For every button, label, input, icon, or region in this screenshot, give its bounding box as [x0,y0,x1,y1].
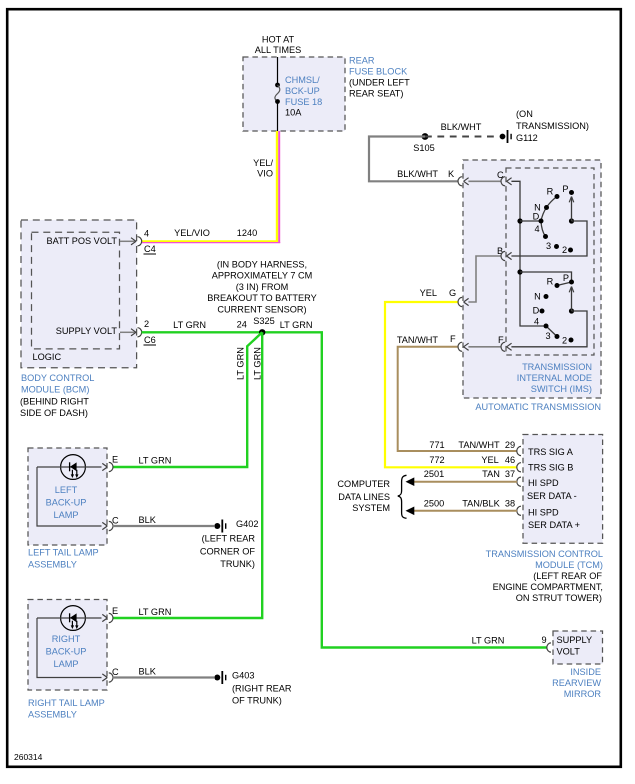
upper switch contacts [539,190,575,253]
svg-text:G403: G403 [232,671,254,681]
svg-text:HOT AT: HOT AT [262,35,295,45]
body control module (BCM) box [21,220,137,368]
svg-text:29: 29 [505,440,515,450]
svg-text:APPROXIMATELY 7 CM: APPROXIMATELY 7 CM [212,271,313,281]
svg-text:INSIDE: INSIDE [570,667,601,677]
svg-text:D: D [533,306,540,316]
svg-text:MODULE (BCM): MODULE (BCM) [21,385,89,395]
svg-text:DATA LINES: DATA LINES [338,492,390,502]
TCM pin 29 connector [517,446,521,455]
svg-text:BCK-UP: BCK-UP [285,86,320,96]
svg-text:LT GRN: LT GRN [236,347,246,380]
wire LT GRN branch to right back-up lamp [113,332,263,618]
svg-text:260314: 260314 [14,752,43,762]
brace for computer data lines [398,475,407,518]
svg-text:(3 IN) FROM: (3 IN) FROM [236,282,289,292]
IMS pin C connector [497,170,512,186]
svg-text:(ON: (ON [516,109,533,119]
note (IN BODY HARNESS...) [207,259,316,314]
svg-text:46: 46 [505,455,515,465]
labels for wire 771 TAN/WHT 29 [429,440,515,450]
svg-text:C6: C6 [144,335,156,345]
svg-text:REAR: REAR [349,56,375,66]
svg-text:ASSEMBLY: ASSEMBLY [28,710,77,720]
svg-text:LT GRN: LT GRN [173,320,206,330]
svg-text:TRS SIG A: TRS SIG A [528,447,574,457]
lower switch contacts [540,280,575,343]
transmission internal mode switch (IMS) box [506,168,594,355]
wire TAN/WHT from transmission F to TCM pin 29 [397,335,517,451]
lower switch output wire to F [511,311,587,347]
svg-text:24: 24 [237,320,247,330]
svg-text:SER DATA +: SER DATA + [528,520,580,530]
ground G112 (on transmission) [500,109,589,143]
svg-text:G112: G112 [516,133,538,143]
fuse CHMSL/BCK-UP FUSE 18 10A [275,57,322,131]
svg-text:ON STRUT TOWER): ON STRUT TOWER) [516,593,602,603]
svg-text:F: F [498,335,504,345]
svg-text:REAR SEAT): REAR SEAT) [349,89,403,99]
right lamp wire to C terminal [37,618,102,678]
svg-text:OF TRUNK): OF TRUNK) [232,696,282,706]
right back-up lamp [37,606,102,669]
wire BLK/WHT from S105 to transmission pin K [369,137,458,182]
label REAR FUSE BLOCK (UNDER LEFT REAR SEAT) [349,56,410,99]
svg-text:(RIGHT REAR: (RIGHT REAR [232,684,292,694]
svg-text:BLK/WHT: BLK/WHT [397,169,438,179]
svg-text:TAN/WHT: TAN/WHT [458,440,500,450]
svg-text:(IN BODY HARNESS,: (IN BODY HARNESS, [217,259,307,269]
svg-text:TRANSMISSION: TRANSMISSION [522,362,592,372]
transmission pin K connector [458,177,469,186]
svg-text:N: N [534,292,541,302]
svg-text:TRANSMISSION CONTROL: TRANSMISSION CONTROL [486,549,603,559]
svg-text:38: 38 [505,499,515,509]
svg-text:FUSE 18: FUSE 18 [285,97,322,107]
mirror pin 9 connector [541,635,551,652]
TCM pin 46 connector [517,463,521,472]
svg-text:37: 37 [505,469,515,479]
svg-text:9: 9 [541,635,546,645]
svg-text:SER DATA -: SER DATA - [527,491,577,501]
svg-text:LT GRN: LT GRN [139,607,172,617]
svg-text:C4: C4 [144,244,156,254]
svg-text:1240: 1240 [237,228,257,238]
svg-text:P: P [563,273,569,283]
wire TAN 2501 to TCM pin 37 [406,469,518,486]
wire from K to C inside transmission [468,180,500,182]
svg-text:HI SPD: HI SPD [528,478,559,488]
svg-text:2501: 2501 [424,469,444,479]
wire from F to F inside transmission [468,346,500,348]
TCM internal labels [527,447,580,530]
svg-text:2: 2 [562,245,567,255]
svg-text:YEL/VIO: YEL/VIO [174,228,210,238]
svg-text:SIDE OF DASH): SIDE OF DASH) [20,408,88,418]
svg-text:TRANSMISSION): TRANSMISSION) [516,121,589,131]
junction on common (lower) [517,269,522,274]
IMS switch common wire from C [511,181,543,326]
svg-text:G402: G402 [236,519,258,529]
svg-text:4: 4 [534,224,539,234]
lower switch arm R-P [557,282,572,286]
transmission control module (TCM) box [523,435,603,544]
svg-text:YEL: YEL [481,455,498,465]
svg-text:G: G [449,288,456,298]
svg-text:BODY CONTROL: BODY CONTROL [21,373,94,383]
svg-text:771: 771 [429,440,444,450]
svg-text:2: 2 [144,319,149,329]
wire YEL from transmission G to TCM pin 46 [385,288,517,467]
lower switch position letters [533,273,569,346]
feed to lower switch contact P [520,272,572,282]
svg-text:LT GRN: LT GRN [280,320,313,330]
svg-text:LEFT: LEFT [55,485,78,495]
wire from G to B inside transmission [468,256,500,302]
svg-text:4: 4 [534,317,539,327]
svg-text:D: D [533,212,540,222]
wire BLK from right lamp to G403 [113,676,214,678]
rear fuse block box [243,57,345,131]
svg-text:(LEFT REAR: (LEFT REAR [202,534,256,544]
svg-text:3: 3 [545,331,550,341]
svg-text:BLK: BLK [139,667,157,677]
svg-text:INTERNAL MODE: INTERNAL MODE [517,373,592,383]
svg-text:10A: 10A [285,108,302,118]
svg-text:HI SPD: HI SPD [528,508,559,518]
left lamp pin E connector [102,455,171,472]
label LEFT TAIL LAMP ASSEMBLY [28,548,99,570]
svg-text:TAN: TAN [482,469,500,479]
svg-text:ALL TIMES: ALL TIMES [255,45,301,55]
svg-text:2: 2 [562,336,567,346]
ground G403 (right rear of trunk) [214,671,292,706]
feed to upper switch contact D [520,220,541,222]
svg-text:(UNDER LEFT: (UNDER LEFT [349,78,410,88]
svg-text:CORNER OF: CORNER OF [200,547,256,557]
svg-text:TRUNK): TRUNK) [220,559,255,569]
svg-text:LT GRN: LT GRN [472,636,505,646]
TCM pin 37 connector [517,477,521,486]
svg-text:RIGHT TAIL LAMP: RIGHT TAIL LAMP [28,698,105,708]
svg-text:E: E [112,455,118,465]
label TRANSMISSION INTERNAL MODE SWITCH (IMS) [517,362,592,394]
IMS pin B connector [497,246,512,261]
svg-text:(BEHIND RIGHT: (BEHIND RIGHT [20,397,89,407]
svg-text:B: B [497,246,503,256]
svg-text:C: C [112,516,119,526]
svg-text:SYSTEM: SYSTEM [352,503,390,513]
svg-text:COMPUTER: COMPUTER [337,479,390,489]
svg-text:TAN/WHT: TAN/WHT [397,335,439,345]
BCM pin 2 C6 connector [120,319,156,345]
svg-text:R: R [547,187,554,197]
svg-text:4: 4 [144,229,149,239]
svg-text:BLK: BLK [139,515,157,525]
label BODY CONTROL MODULE (BCM) (BEHIND RIGHT SIDE OF DASH) [20,373,94,418]
TCM pin 38 connector [517,506,521,515]
svg-text:LT GRN: LT GRN [253,347,263,380]
left lamp wire to C terminal [37,467,102,526]
svg-text:REARVIEW: REARVIEW [552,678,601,688]
svg-text:MIRROR: MIRROR [564,689,602,699]
svg-text:LAMP: LAMP [53,659,78,669]
svg-text:RIGHT: RIGHT [52,634,81,644]
left tail lamp assembly box [28,448,107,545]
svg-text:R: R [547,277,554,287]
upper switch arm D-N-R [541,197,557,222]
svg-text:LAMP: LAMP [53,510,78,520]
svg-text:BACK-UP: BACK-UP [46,498,87,508]
upper switch arc D-4 [541,221,546,237]
IMS pin F connector [498,335,512,351]
svg-text:SUPPLY VOLT: SUPPLY VOLT [56,326,118,336]
svg-text:VOLT: VOLT [557,647,581,657]
svg-text:YEL: YEL [420,288,437,298]
wire BLK from left lamp to G402 [113,525,214,527]
wire YEL/VIO from fuse to BCM pin 4 [142,131,281,243]
svg-text:2500: 2500 [424,499,444,509]
svg-text:CHMSL/: CHMSL/ [285,75,320,85]
splice S325 [259,329,265,335]
lower switch arm 4-3 [546,326,557,337]
svg-text:SUPPLY: SUPPLY [557,635,593,645]
ground G402 (left rear corner of trunk) [200,519,259,569]
svg-text:BACK-UP: BACK-UP [46,647,87,657]
svg-text:772: 772 [429,455,444,465]
svg-text:BATT POS VOLT: BATT POS VOLT [47,236,118,246]
svg-text:BREAKOUT TO BATTERY: BREAKOUT TO BATTERY [207,293,316,303]
svg-text:AUTOMATIC TRANSMISSION: AUTOMATIC TRANSMISSION [475,402,601,412]
left lamp pin C connector [102,515,156,531]
inside rearview mirror supply volt box [553,631,603,664]
svg-text:TAN/BLK: TAN/BLK [462,499,500,509]
junction on common (upper) [517,218,522,223]
svg-text:ASSEMBLY: ASSEMBLY [28,560,77,570]
wire LT GRN from BCM pin 2 to S325 to inside rearview mirror [142,316,548,648]
svg-text:SWITCH (IMS): SWITCH (IMS) [531,384,592,394]
left back-up lamp [37,455,102,520]
label RIGHT TAIL LAMP ASSEMBLY [28,698,105,720]
svg-text:E: E [112,606,118,616]
upper switch position letters [533,184,569,255]
automatic transmission box [463,160,601,398]
svg-text:C: C [112,667,119,677]
wire TAN/BLK 2500 to TCM pin 38 [406,499,518,516]
svg-text:3: 3 [546,241,551,251]
svg-text:YEL/: YEL/ [253,158,273,168]
svg-text:TRS SIG B: TRS SIG B [528,463,573,473]
label COMPUTER DATA LINES SYSTEM [337,479,390,513]
svg-text:K: K [448,169,455,179]
labels for wire 772 YEL 46 [429,455,515,465]
dashed wire BLK/WHT to G112 [425,122,499,137]
right tail lamp assembly box [28,600,107,691]
svg-text:P: P [562,184,568,194]
svg-text:LEFT TAIL LAMP: LEFT TAIL LAMP [28,548,99,558]
svg-text:ENGINE COMPARTMENT,: ENGINE COMPARTMENT, [493,582,603,592]
svg-text:LOGIC: LOGIC [33,352,62,362]
svg-text:(LEFT REAR OF: (LEFT REAR OF [533,571,602,581]
svg-text:BLK/WHT: BLK/WHT [441,122,482,132]
svg-text:FUSE BLOCK: FUSE BLOCK [349,67,408,77]
wire LT GRN branch to left back-up lamp [113,332,263,467]
lower switch wiper arrow to P [569,287,574,314]
label TRANSMISSION CONTROL MODULE (TCM) (LEFT REAR OF ENGINE COMPARTMENT, ON STRUT TOWER) [486,549,603,603]
transmission pin F connector [450,334,469,351]
right lamp pin E connector [102,606,171,623]
right lamp pin C connector [102,667,156,683]
splice S105 [413,133,434,153]
upper switch output wire to B [511,221,587,256]
svg-text:C: C [497,170,504,180]
label HOT AT ALL TIMES [255,35,301,56]
svg-text:MODULE (TCM): MODULE (TCM) [535,560,603,570]
svg-text:S325: S325 [253,316,274,326]
transmission pin G connector [449,288,469,307]
svg-text:CURRENT SENSOR): CURRENT SENSOR) [217,304,306,314]
svg-text:S105: S105 [413,143,434,153]
svg-text:LT GRN: LT GRN [139,456,172,466]
BCM pin 4 C4 connector [120,229,156,255]
upper switch wiper arrow to P [569,197,574,224]
svg-text:F: F [450,334,456,344]
label INSIDE REARVIEW MIRROR [552,667,601,699]
svg-text:VIO: VIO [257,169,273,179]
